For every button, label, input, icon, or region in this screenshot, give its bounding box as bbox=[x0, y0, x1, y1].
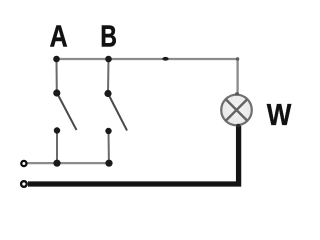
svg-text:W: W bbox=[267, 97, 292, 132]
svg-text:B: B bbox=[100, 20, 117, 54]
svg-text:A: A bbox=[50, 20, 68, 54]
